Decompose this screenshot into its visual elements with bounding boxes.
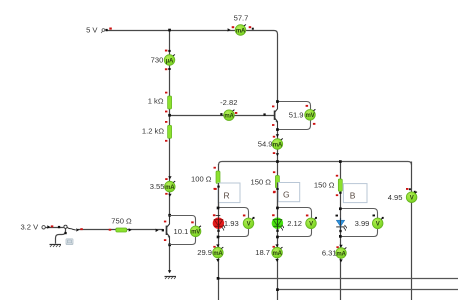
svg-text:3.55: 3.55 <box>150 182 165 191</box>
svg-text:6.31: 6.31 <box>322 249 337 258</box>
wire base1 horizontal <box>170 115 275 117</box>
svg-text:54.9: 54.9 <box>258 140 273 149</box>
wire right vertical collector feed <box>274 31 278 102</box>
wire voltmeter loop G <box>278 208 312 237</box>
svg-text:mV: mV <box>306 113 315 119</box>
wire 3.2V to switch <box>46 227 64 229</box>
current arrow base2 <box>156 229 159 232</box>
ammeter A3 54.9 mA <box>258 134 283 156</box>
wire R branch vertical <box>218 164 220 300</box>
svg-text:mA: mA <box>236 28 246 34</box>
resistor 1 kOhm <box>168 96 172 109</box>
svg-text:57.7: 57.7 <box>234 14 249 23</box>
svg-text:29.9: 29.9 <box>197 248 212 257</box>
svg-text:R: R <box>224 191 230 201</box>
polarity marks 750 <box>109 229 112 231</box>
svg-text:100 Ω: 100 Ω <box>191 175 212 184</box>
svg-text:750 Ω: 750 Ω <box>111 217 132 226</box>
transistor Q1 npn <box>275 102 278 130</box>
svg-text:mA: mA <box>336 251 346 257</box>
wire top rail 5V <box>106 30 274 32</box>
svg-text:2.12: 2.12 <box>287 219 302 228</box>
node loop B top <box>339 207 342 210</box>
svg-text:V: V <box>410 196 414 202</box>
node rail-B <box>339 160 342 163</box>
svg-text:4.95: 4.95 <box>388 193 403 202</box>
polarity mark red switch-in <box>51 225 54 227</box>
svg-text:mA: mA <box>273 142 283 148</box>
polarity marks Q1 <box>272 106 274 108</box>
svg-text:730: 730 <box>151 56 164 65</box>
ammeter A-mid -2.82 mA <box>220 98 237 121</box>
node loop B bottom <box>339 235 342 238</box>
wire switch to 750 <box>78 229 163 231</box>
node Q1 base dot <box>263 113 265 115</box>
label box B <box>343 184 367 203</box>
polarity mark red 5V <box>109 28 112 30</box>
LED blue D3 <box>336 215 348 233</box>
ammeter A1 730 uA <box>151 50 175 71</box>
node junction base1 <box>168 114 171 117</box>
ammeter A-R 29.9 mA <box>197 244 223 262</box>
resistor 150 Ohm B <box>338 179 342 191</box>
wire bus2 <box>278 289 458 291</box>
resistor 150 Ohm G <box>275 176 279 189</box>
svg-text:1 kΩ: 1 kΩ <box>148 97 164 106</box>
switch SW1 <box>64 225 83 231</box>
polarity marks R2 <box>165 121 167 123</box>
power terminal 5V <box>101 29 105 33</box>
voltmeter VM2 10.1 mV <box>170 216 202 245</box>
svg-text:1.2 kΩ: 1.2 kΩ <box>142 126 164 135</box>
svg-text:3.2 V: 3.2 V <box>20 222 39 231</box>
svg-text:V: V <box>309 222 313 228</box>
power terminal 3.2V <box>42 226 45 229</box>
node dot switch-in <box>58 226 60 228</box>
polarity marks 150G <box>273 171 275 173</box>
node Q2 base dot <box>162 229 164 231</box>
node dot switch ground tap <box>64 232 66 234</box>
wire left vertical <box>169 31 171 216</box>
voltmeter V-B 3.99 <box>355 215 384 229</box>
svg-text:5 V: 5 V <box>86 26 98 35</box>
wire voltmeter loop B <box>341 209 378 237</box>
ammeter A-B 6.31 mA <box>322 245 347 263</box>
node loop R bottom <box>217 236 220 239</box>
svg-text:mA: mA <box>165 185 175 191</box>
ground symbol left <box>50 245 62 248</box>
svg-text:10.1: 10.1 <box>174 227 189 236</box>
node Q1 collector <box>276 100 279 103</box>
transistor Q2 npn <box>167 216 170 245</box>
node Q2 emitter <box>168 244 171 247</box>
svg-text:18.7: 18.7 <box>255 248 270 257</box>
ammeter A-top 57.7 mA <box>228 14 254 36</box>
wire voltmeter loop U-mv1 <box>278 102 311 130</box>
svg-text:G: G <box>283 189 290 199</box>
current arrow after terminal <box>47 225 50 228</box>
polarity marks 100 <box>214 167 216 169</box>
current arrow to ground2 <box>168 270 171 273</box>
svg-text:V: V <box>247 222 251 228</box>
wire switch node to ground <box>56 229 66 244</box>
polarity marks R1 <box>165 92 167 94</box>
node Q2 collector <box>168 214 171 217</box>
ammeter A2 3.55 mA <box>150 176 176 197</box>
node dot 5V wire <box>105 29 107 31</box>
svg-text:3.99: 3.99 <box>355 219 370 228</box>
ground symbol main <box>165 277 177 280</box>
resistor 1.2 kOhm <box>168 125 172 138</box>
node loop R top <box>217 207 220 210</box>
svg-text:B: B <box>350 190 356 200</box>
ammeter A-G 18.7 mA <box>255 244 282 262</box>
node loop G top <box>276 207 279 210</box>
wire emitter to rail <box>277 130 279 162</box>
svg-text:150 Ω: 150 Ω <box>314 181 335 190</box>
voltmeter V-R 1.93 <box>224 215 255 229</box>
wire G branch vertical <box>277 162 279 300</box>
node rail-G <box>276 160 279 163</box>
node Q1 emitter <box>276 128 279 131</box>
voltmeter VM1 51.9 mV <box>289 105 316 125</box>
svg-text:V: V <box>376 222 380 228</box>
resistor 750 Ohm <box>116 228 127 232</box>
node bus1-R <box>217 277 220 280</box>
wire voltmeter loop R <box>219 208 249 237</box>
node bus2-G <box>276 288 279 291</box>
svg-text:51.9: 51.9 <box>289 110 304 119</box>
resistor 100 Ohm <box>216 171 220 184</box>
svg-text:mA: mA <box>272 251 282 257</box>
voltmeter V-G 2.12 <box>287 215 317 229</box>
polarity marks Q2 <box>164 221 166 223</box>
wire B branch vertical <box>340 162 342 300</box>
svg-text:mA: mA <box>213 251 223 257</box>
node junction top-left <box>168 29 171 32</box>
svg-text:1.93: 1.93 <box>224 219 239 228</box>
label box G <box>278 183 299 202</box>
svg-text:150 Ω: 150 Ω <box>251 178 272 187</box>
LED red D1 <box>213 214 226 232</box>
polarity marks 150B <box>336 175 338 177</box>
label box R <box>218 183 240 203</box>
svg-text:mV: mV <box>191 230 200 236</box>
node loop G bottom <box>276 236 279 239</box>
wire bus1 <box>219 278 458 280</box>
wire mid rail <box>219 162 412 166</box>
LED green D2 <box>272 214 284 232</box>
key icon switch control <box>66 239 73 245</box>
svg-text:-2.82: -2.82 <box>220 98 237 107</box>
wire Q2 emitter to ground <box>169 245 171 273</box>
svg-text:µA: µA <box>166 58 174 64</box>
wire right rail vertical <box>411 162 413 300</box>
voltmeter V-rail 4.95 <box>388 188 417 203</box>
svg-text:mA: mA <box>224 114 234 120</box>
